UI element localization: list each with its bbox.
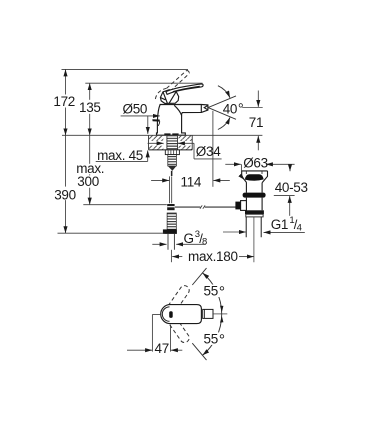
- svg-text:55°: 55°: [204, 284, 225, 302]
- svg-text:40-53: 40-53: [275, 180, 308, 195]
- svg-text:47: 47: [155, 341, 169, 356]
- svg-text:Ø50: Ø50: [123, 101, 148, 116]
- svg-text:390: 390: [54, 187, 76, 202]
- svg-text:114: 114: [181, 174, 202, 189]
- svg-text:max.180: max.180: [188, 249, 238, 264]
- svg-text:G11/4: G11/4: [271, 215, 302, 234]
- svg-text:300: 300: [77, 174, 99, 189]
- svg-text:135: 135: [79, 100, 101, 115]
- svg-text:Ø63: Ø63: [243, 155, 268, 170]
- svg-text:71: 71: [249, 115, 263, 130]
- svg-text:55°: 55°: [204, 332, 225, 350]
- svg-text:Ø34: Ø34: [196, 144, 221, 159]
- svg-text:40°: 40°: [223, 101, 244, 117]
- svg-text:172: 172: [53, 94, 75, 109]
- svg-text:max. 45: max. 45: [97, 148, 143, 163]
